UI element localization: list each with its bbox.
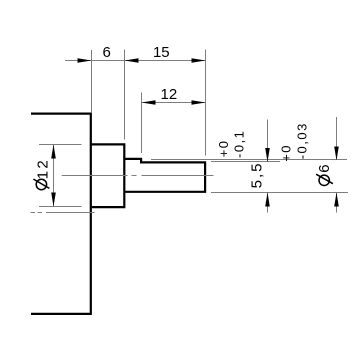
- 5,5 arrow down at flat line: [265, 148, 270, 162]
- Ø12 dimension line: [53, 145, 55, 207]
- extension line boss face (6 right / 15 left): [124, 50, 126, 140]
- arrow 12 right pointing right: [192, 100, 206, 105]
- motor body outline: [31, 114, 91, 314]
- Ø6 arrow down at full dia line: [334, 147, 339, 161]
- Ø6 arrow up at bottom line: [334, 193, 339, 207]
- lower hole centerline on body: [31, 212, 95, 214]
- svg-text:6: 6: [103, 44, 111, 61]
- svg-text:-0,1: -0,1: [231, 130, 246, 158]
- Ø6 top extension line (full diameter): [151, 159, 347, 161]
- extension line shaft end (15/12 right): [205, 50, 207, 156]
- svg-text:+0: +0: [278, 144, 293, 162]
- 5,5 dimension line top segment: [267, 120, 269, 162]
- Ø6 dimension line bottom segment: [336, 193, 338, 213]
- svg-text:5,5: 5,5: [249, 162, 266, 189]
- svg-text:12: 12: [161, 86, 178, 103]
- Ø12 diameter symbol: [36, 179, 46, 189]
- centerline of shaft: [62, 175, 214, 177]
- shaft outline with flat step: [124, 159, 205, 192]
- Ø12 extension line bottom: [39, 206, 82, 208]
- extension line shaft step (12 left): [141, 93, 143, 154]
- arrow at body face pointing right: [78, 58, 92, 63]
- shared bottom extension line: [211, 192, 348, 194]
- 5,5 dimension line bottom segment: [267, 193, 269, 213]
- Ø12 extension line top: [39, 144, 82, 146]
- Ø12 arrow down: [51, 193, 56, 207]
- svg-text:15: 15: [153, 44, 170, 61]
- Ø6 dimension line top segment: [336, 117, 338, 160]
- svg-text:+0: +0: [216, 139, 231, 157]
- Ø6 diameter symbol: [319, 175, 329, 185]
- svg-text:6: 6: [316, 164, 333, 172]
- svg-text:12: 12: [34, 158, 51, 179]
- dimension line 12: [142, 102, 206, 104]
- arrow 12 left pointing left: [142, 100, 156, 105]
- 5,5 arrow up at bottom line: [265, 193, 270, 207]
- extension line body face (6 left): [91, 50, 93, 113]
- 5,5 top extension line (flat): [211, 161, 280, 163]
- Ø12 arrow up: [51, 145, 56, 159]
- dimension line 6 and 15: [65, 60, 206, 62]
- svg-text:-0,03: -0,03: [295, 122, 310, 159]
- arrow at boss face pointing left: [125, 58, 139, 63]
- arrow at shaft end pointing right: [192, 58, 206, 63]
- boss (flange pilot) outline: [91, 144, 125, 207]
